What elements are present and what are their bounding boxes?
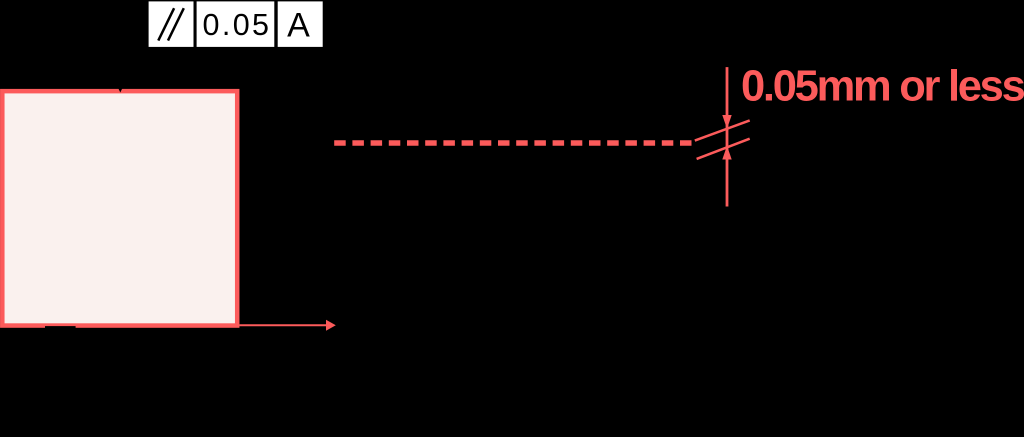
dimension arrowhead pointing down	[722, 115, 731, 129]
leader arrowhead on top surface	[115, 82, 125, 93]
datum letter box (hidden on black)	[47, 368, 74, 395]
feature control frame box 2 (tolerance value)	[197, 1, 275, 47]
tolerance zone lower boundary (slanted)	[697, 139, 750, 159]
bottom surface extension arrow	[239, 324, 327, 326]
datum leader line	[59, 341, 61, 368]
parallelism symbol //	[158, 8, 184, 40]
part body (toleranced square)	[2, 91, 237, 325]
tolerance zone upper boundary (slanted)	[695, 120, 750, 140]
datum triangle on bottom surface	[45, 326, 76, 341]
svg-text:0.05mm or less: 0.05mm or less	[741, 63, 1024, 111]
vertical dimension line	[726, 67, 729, 206]
svg-text:A: A	[287, 6, 310, 44]
svg-text:0.05: 0.05	[203, 8, 270, 42]
leader line from feature control frame	[120, 24, 146, 84]
feature control frame box 1 (parallelism)	[149, 1, 194, 47]
dimension arrowhead pointing up	[722, 146, 731, 160]
dashed reference line (datum-parallel plane)	[334, 140, 691, 145]
feature control frame box 3 (datum reference)	[278, 1, 323, 47]
